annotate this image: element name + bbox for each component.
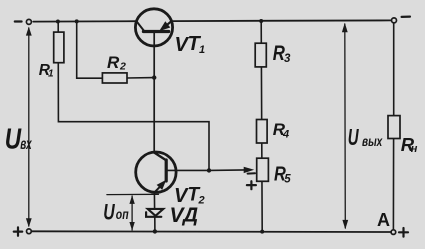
wire: top rail right segment (VT1 to output minus) (171, 19, 391, 22)
junction: R2 / VT1 base node (152, 75, 156, 79)
resistor R2 (102, 73, 127, 83)
resistor R1 (54, 32, 64, 63)
label VD (170, 204, 199, 228)
label R2 (107, 53, 126, 72)
svg-text:вых: вых (362, 133, 383, 149)
label Uvyh (348, 125, 383, 151)
label: output minus polarity (402, 16, 410, 18)
potentiometer R5 (257, 158, 269, 181)
junction: R2 branch / top rail (75, 19, 79, 23)
svg-text:2: 2 (198, 195, 205, 207)
svg-text:U: U (348, 125, 359, 151)
resistor Rn (load) (388, 116, 400, 139)
svg-text:A: A (377, 210, 390, 230)
wire: VT2 emitter to zener VD (153, 193, 155, 210)
terminal: input plus (bottom left) (27, 229, 32, 234)
label: wiper plus polarity (247, 181, 256, 189)
svg-text:5: 5 (284, 173, 291, 185)
junction: R3 / top rail (259, 19, 263, 23)
label: input plus polarity (14, 227, 22, 235)
svg-text:3: 3 (284, 53, 291, 65)
wire: VT1 base down to VT2 collector (153, 32, 155, 153)
wire: wiper arrow into R5 (209, 169, 246, 172)
transistor VT1 (135, 9, 172, 46)
label: output plus polarity (399, 228, 408, 237)
annotation: Uop dimension arrow (131, 196, 133, 230)
label Rn (401, 134, 418, 155)
svg-text:U: U (5, 122, 22, 155)
svg-text:1: 1 (48, 69, 54, 80)
label R5 (274, 162, 291, 186)
wire: R2 to VT1 base node (127, 77, 154, 79)
svg-text:Д: Д (181, 204, 198, 227)
label VT1 (175, 33, 206, 56)
svg-text:4: 4 (282, 128, 289, 140)
wire: divider column (top rail through R3 R4 R5 to plus rail) (261, 21, 262, 232)
junction: R1 / top rail (56, 20, 60, 24)
wire: R1 branch from top rail down, then right to wiper branch corner (58, 21, 209, 170)
svg-text:R: R (107, 53, 120, 72)
wire: Rn to output plus terminal (392, 138, 394, 230)
label Uvx (5, 122, 32, 155)
label Uop (103, 201, 129, 225)
annotation: Uvyh dimension arrow (344, 24, 347, 228)
junction: R5 / plus rail (260, 230, 264, 234)
svg-text:U: U (103, 201, 115, 225)
label R1 (39, 62, 54, 80)
transistor VT2 (136, 152, 176, 192)
svg-text:1: 1 (199, 44, 205, 56)
resistor R4 (257, 120, 268, 144)
label: wiper minus polarity (248, 172, 255, 174)
svg-text:2: 2 (119, 61, 126, 73)
resistor R3 (255, 43, 266, 67)
label R4 (273, 120, 289, 141)
label: input minus polarity (15, 20, 22, 22)
svg-text:н: н (411, 143, 418, 155)
junction: zener / plus rail (153, 229, 157, 233)
annotation: Uvx dimension arrow (28, 28, 30, 226)
wire: VT2 base lead to wiper junction (166, 169, 209, 171)
terminal: output minus (top right) (392, 18, 397, 23)
annotation: Uop reference line (107, 193, 159, 195)
junction: wiper / R1 branch (207, 168, 211, 172)
wire: top rail left segment (input minus to VT1) (33, 20, 136, 22)
zener diode VD (146, 209, 163, 217)
svg-text:вх: вх (20, 135, 32, 153)
wire: zener VD to plus rail (154, 217, 156, 232)
wire: load branch from output minus terminal down to Rn (393, 23, 395, 116)
wire: bottom rail (plus rail) (32, 230, 392, 233)
label R3 (273, 43, 291, 66)
terminal: input minus (top left) (26, 19, 31, 24)
label VT2 (174, 185, 205, 208)
terminal: output plus (bottom right, node A) (391, 230, 396, 235)
svg-text:оп: оп (116, 207, 129, 223)
wire: R2 branch from top rail (77, 21, 103, 78)
